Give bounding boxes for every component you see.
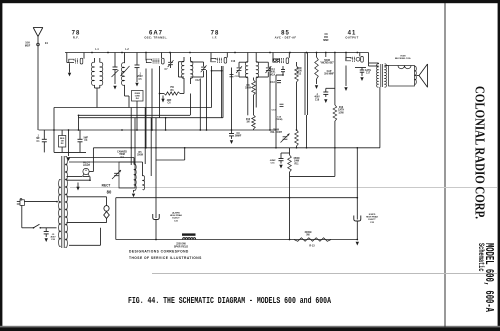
svg-text:OSC: TRANSL.: OSC: TRANSL. [144,35,167,39]
svg-text:"INCREASE": "INCREASE" [320,62,334,65]
svg-text:CAP: CAP [327,70,332,73]
svg-text:2MF: 2MF [167,100,172,102]
svg-text:HIGH PEAK: HIGH PEAK [366,216,379,219]
svg-text:FIG. 44. THE SCHEMATIC DIAG: FIG. 44. THE SCHEMATIC DIAGRAM - MODELS … [128,296,332,306]
svg-text:R12: R12 [297,73,302,75]
svg-text:C16: C16 [231,61,236,63]
svg-text:1M: 1M [246,122,249,124]
svg-text:(TRIM): (TRIM) [276,119,283,121]
svg-text:COLONIAL RADIO CORP.: COLONIAL RADIO CORP. [473,86,488,219]
svg-text:C17: C17 [366,73,371,75]
svg-text:(A-MFD: (A-MFD [172,212,180,215]
svg-text:MGF: MGF [25,44,31,47]
svg-text:1/4W: 1/4W [294,160,300,163]
svg-text:MF: MF [36,138,40,140]
svg-text:R10: R10 [246,119,251,121]
svg-text:C18: C18 [315,99,320,101]
svg-text:SPKR FIELD: SPKR FIELD [174,246,188,249]
svg-text:OUTPUT: OUTPUT [345,35,358,39]
svg-text:4000Ω: 4000Ω [305,231,312,234]
svg-text:.0001: .0001 [270,72,276,74]
svg-text:HIGH PEAK: HIGH PEAK [170,214,183,217]
svg-text:AVC - DET-AF: AVC - DET-AF [275,35,297,39]
svg-text:R-13: R-13 [309,245,315,248]
svg-text:250M: 250M [137,155,143,157]
svg-text:5MF: 5MF [83,138,88,140]
svg-text:2MMF: 2MMF [235,136,242,138]
svg-text:CON: CON [296,71,301,73]
svg-text:BUCKING COIL: BUCKING COIL [395,58,412,60]
svg-text:R.F.: R.F. [73,35,79,39]
svg-text:LIGHT: LIGHT [83,165,90,167]
svg-text:1/2W: 1/2W [338,112,344,114]
svg-text:CANNED: CANNED [117,151,127,154]
svg-text:250V: 250V [137,76,143,78]
svg-text:R16: R16 [339,107,344,109]
svg-text:DESIGNATIONS CORRESPOND: DESIGNATIONS CORRESPOND [129,250,189,254]
svg-text:C14: C14 [270,68,275,71]
svg-text:TON: TON [297,68,302,70]
svg-text:PILOT: PILOT [83,163,90,165]
svg-text:CATH: CATH [365,69,372,72]
svg-text:Schematic: Schematic [476,243,486,272]
svg-text:500M: 500M [324,60,330,62]
svg-text:THOSE OF SERVICE ILLUSTRATION: THOSE OF SERVICE ILLUSTRATIONS [129,256,202,260]
svg-text:80: 80 [107,190,112,195]
svg-text:C12: C12 [195,80,200,82]
svg-text:400V: 400V [50,236,56,239]
svg-text:I.F.: I.F. [213,35,218,39]
svg-text:MCA: MCA [270,73,276,76]
svg-text:CATH: CATH [338,109,345,112]
svg-text:650M: 650M [294,158,300,160]
svg-text:RECT: RECT [102,184,111,188]
svg-text:400V: 400V [314,96,320,99]
svg-text:MMF: MMF [323,39,329,42]
svg-text:350 MMF: 350 MMF [324,74,334,76]
svg-text:R11: R11 [294,163,299,165]
svg-text:C13: C13 [270,82,275,84]
svg-text:TRIM: TRIM [119,154,125,156]
